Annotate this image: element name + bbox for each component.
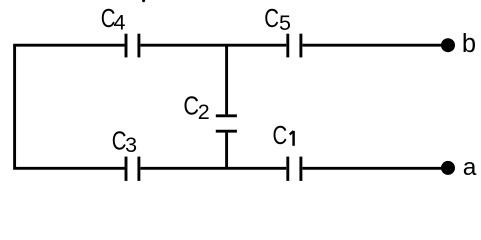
terminal b	[441, 38, 455, 52]
label C5	[264, 4, 291, 35]
svg-text:C: C	[273, 121, 288, 150]
label C3	[112, 126, 137, 157]
terminal a	[441, 161, 455, 175]
stray mark (clipped glyph at top edge)	[142, 0, 145, 2]
label C1	[273, 121, 294, 150]
capacitor C5	[288, 34, 301, 58]
capacitor C4	[126, 34, 139, 58]
svg-text:4: 4	[114, 11, 126, 35]
label C4	[101, 4, 126, 35]
svg-text:C: C	[183, 92, 199, 121]
wire bottom middle (C3 to C2 junction to C1)	[140, 167, 286, 170]
label C2	[183, 92, 209, 124]
svg-text:5: 5	[279, 11, 291, 35]
capacitor C3	[126, 157, 139, 181]
wire bottom right (C1 to terminal a)	[302, 167, 448, 170]
svg-text:3: 3	[125, 133, 137, 157]
wire top middle (C4 to C2 junction to C5)	[140, 44, 286, 47]
capacitor C1	[288, 157, 301, 181]
capacitor C2 (vertical: top stem, two plates, bottom stem)	[216, 45, 237, 168]
svg-text:a: a	[463, 154, 477, 181]
wire top right (C5 to terminal b)	[302, 44, 448, 47]
svg-text:b: b	[462, 30, 476, 58]
svg-text:2: 2	[198, 100, 210, 124]
svg-text:C: C	[264, 4, 279, 33]
wire left loop (top rail left segment, left vertical wire, bottom rail left segment)	[15, 45, 125, 168]
